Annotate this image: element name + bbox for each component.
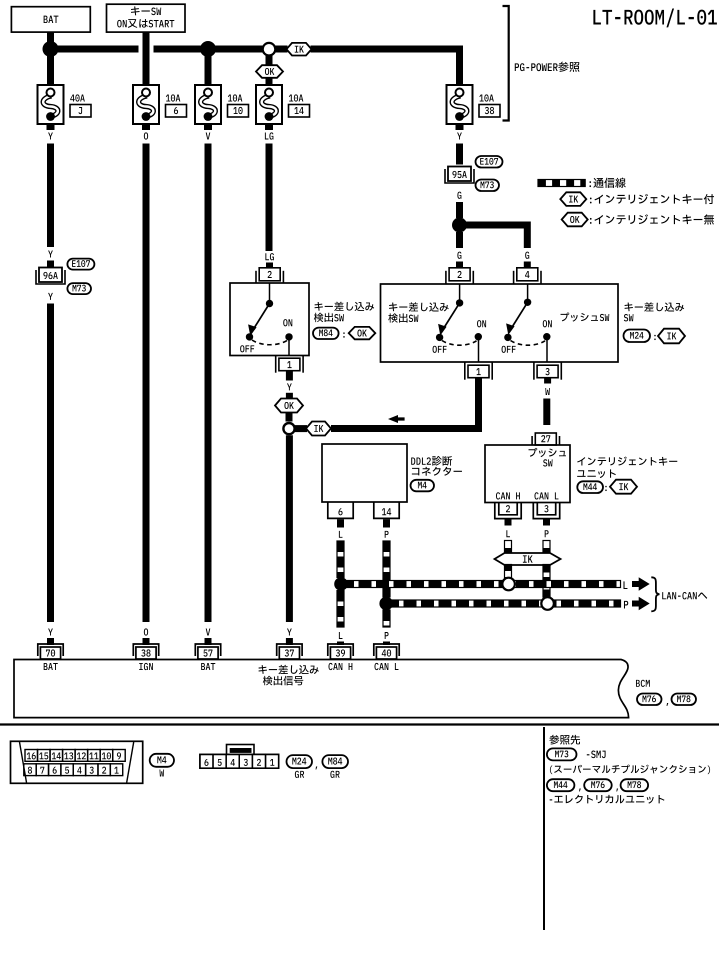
fuse 10A 38 <box>447 85 473 124</box>
wire stub G pin4 <box>524 262 531 269</box>
arrow L bus <box>632 577 650 591</box>
comma separator 3 <box>579 788 581 791</box>
wire W down to pin27 <box>543 399 550 426</box>
label GR M24 <box>295 771 299 778</box>
wire stub below pin x=508 <box>505 519 512 525</box>
wire label L above BCM pin 39 <box>339 632 343 639</box>
BCM pin label BAT <box>44 663 48 670</box>
switchA dashed arc <box>442 341 477 346</box>
label W footer <box>160 770 165 777</box>
wire Y 96A to BCM <box>47 304 54 623</box>
switch OFF contact dot <box>246 333 253 340</box>
colon separator 2 <box>654 335 655 340</box>
fuse 40A J <box>38 85 64 124</box>
switchA OFF dot <box>436 334 443 341</box>
wire Y below fuse J <box>47 144 54 248</box>
label GR M84 <box>330 771 334 778</box>
IK unit label CAN H <box>496 492 500 499</box>
switchA line from pin2 <box>459 284 461 303</box>
switchA label ON <box>477 320 481 327</box>
connector pinout M4 <box>11 741 143 783</box>
wire label G pin4 <box>525 252 529 259</box>
junction dot at fuse 10 <box>200 41 216 57</box>
wire circle to OK flag <box>266 56 273 66</box>
brace LAN-CAN <box>651 577 659 611</box>
wire color label O <box>144 132 148 139</box>
pin 6 DDL2 <box>328 502 353 518</box>
connector 95A <box>448 167 471 182</box>
pin 3 big switch <box>537 365 558 378</box>
pin 4 big switch <box>517 268 538 281</box>
BCM box <box>14 660 629 718</box>
label L bus end <box>623 581 627 589</box>
wire Y branch horizontal <box>331 425 482 432</box>
wire G below dot <box>456 232 463 248</box>
comm wire L DDL2 down <box>337 541 344 578</box>
separator line <box>0 723 719 725</box>
switch output line <box>288 340 290 356</box>
flag OK on Y wire <box>275 399 303 413</box>
key switch box M24 <box>381 284 619 362</box>
colon separator 3 <box>605 486 606 491</box>
switch ON contact dot <box>285 333 292 340</box>
connector ref M24 <box>624 330 651 343</box>
IK unit label pushSW line1 <box>529 448 538 457</box>
BCM pin 57 <box>198 647 218 659</box>
connector ref M84 footer <box>322 755 348 768</box>
connector ref M73 footer <box>547 748 577 760</box>
connector ref M24 footer <box>287 755 313 768</box>
junction dot P bus <box>379 597 393 611</box>
wire label W big box <box>545 388 550 395</box>
wire stub below fuse at x=208 <box>204 124 212 130</box>
small switch label line1 <box>315 302 323 311</box>
wire stub below fuse at x=50.5 <box>47 124 55 130</box>
connector ref M4 footer <box>150 754 174 767</box>
wire stub BCM pin 39 <box>337 642 344 646</box>
flag OK small switch <box>349 327 376 339</box>
wire stub below pin1 <box>286 372 293 381</box>
connector pinout M24/M84 <box>227 745 255 757</box>
open circle CANL on P bus <box>541 597 554 610</box>
comm wire L to pin39 <box>337 591 344 628</box>
flag OK above fuse 14 <box>256 65 283 78</box>
wire label Y above 96A <box>48 251 53 258</box>
wire G stub to junction <box>456 202 463 218</box>
switchA arm with arrow <box>444 303 460 329</box>
pin 27 IK unit <box>535 433 556 445</box>
wire label Y small switch <box>287 383 292 390</box>
switchB OFF dot <box>504 334 511 341</box>
connector ref M73 left <box>67 283 91 294</box>
wire stub below pin x=546.5 <box>543 519 550 525</box>
wire stub BCM pin 57 <box>205 638 212 645</box>
comm wire P DDL2 down <box>383 541 390 597</box>
flag IK wide CAN <box>495 553 561 565</box>
wire label Y below 96A <box>48 293 53 300</box>
wire stub BCM pin 40 <box>383 642 390 646</box>
big box label line2 <box>388 313 398 322</box>
fuse 10A 14 <box>256 85 282 124</box>
BCM pin 70 <box>40 647 60 659</box>
BCM pin 37 label line2 <box>263 676 273 685</box>
wire stub G pin2 <box>456 262 463 269</box>
pin 2 small switch <box>259 268 280 281</box>
wire stub below pin3 big <box>544 378 551 383</box>
wire label Y above BCM pin 70 <box>48 629 53 636</box>
comma separator 4 <box>616 788 618 791</box>
wire stub BCM pin 37 <box>286 638 293 645</box>
small switch label line2 <box>314 313 324 322</box>
open circle junction Y <box>283 423 294 434</box>
wire color label Y <box>48 133 53 140</box>
wire OK flag to fuse 14 <box>266 78 273 85</box>
switchB dashed arc <box>511 341 546 346</box>
legend comm line text <box>589 181 591 187</box>
label OFF <box>240 345 244 352</box>
wire Y circle down to BCM <box>286 435 293 622</box>
BCM pin 40 <box>376 647 396 659</box>
wire color label Y <box>457 133 462 140</box>
switchB label OFF <box>502 346 506 353</box>
switchB output line <box>546 340 548 362</box>
label electrical unit <box>550 799 553 800</box>
wire label L DDL2 <box>339 531 343 538</box>
wire BAT box to bus and fuse J <box>47 32 54 85</box>
big box right label line2 <box>624 314 628 321</box>
wire label G pin2 <box>457 252 461 259</box>
BCM pin 39 <box>330 647 350 659</box>
label SMJ <box>587 754 590 755</box>
label P bus end <box>624 601 628 609</box>
connector ref M44 footer <box>547 779 575 791</box>
wire label Y above BCM pin 37 <box>287 629 292 636</box>
comma separator 2 <box>316 766 318 769</box>
label reference header <box>549 735 559 745</box>
switchA label OFF <box>433 346 437 353</box>
connector ref M78 footer <box>621 779 649 791</box>
wire label L IK unit <box>506 530 510 537</box>
wire circle to IK flag <box>294 425 307 432</box>
legend OK flag <box>562 213 588 227</box>
title LT-ROOM/L-01 <box>593 10 601 25</box>
wire color label V <box>206 133 211 140</box>
wire label P IK unit <box>545 530 549 537</box>
connector ref M76 BCM <box>637 694 662 706</box>
connector ref E107 right <box>476 156 503 168</box>
label LAN-CAN <box>662 592 666 599</box>
flag IK on bus <box>287 43 312 56</box>
IK unit box <box>485 445 570 503</box>
wire LG fuse14 down <box>266 144 273 252</box>
wire stub BCM pin 70 <box>47 638 54 645</box>
switchB label pushSW <box>561 312 570 321</box>
BCM pin 38 <box>136 647 156 659</box>
DDL2 label line1 <box>411 457 415 464</box>
switchB pivot dot <box>524 299 531 306</box>
wire stub below pin1 big <box>475 378 482 383</box>
wire color label LG <box>265 133 269 140</box>
switchA output line <box>478 340 480 362</box>
BCM pin 37 label line1 <box>259 665 267 674</box>
direction arrow left <box>388 415 405 423</box>
switchA pivot dot <box>456 299 463 306</box>
bracket PG-POWER <box>503 6 509 121</box>
wire stub below fuse at x=459.5 <box>456 124 464 130</box>
comm bus P horizontal <box>386 600 621 607</box>
switch arm with arrow <box>254 304 270 330</box>
flag IK big switch <box>658 329 685 344</box>
pin 14 DDL2 <box>374 502 399 518</box>
IK unit right label line1 <box>577 457 585 465</box>
colon separator <box>343 332 344 337</box>
flag IK unit <box>610 480 637 494</box>
switch dashed arc <box>252 340 287 345</box>
wire OK flag to circle <box>286 413 293 422</box>
fuse 10A 6 <box>133 85 159 124</box>
wire stub below fuse at x=146 <box>142 124 150 130</box>
label super multiple junction <box>550 766 553 775</box>
connector ref M4 <box>411 480 435 492</box>
big box label line1 <box>389 303 397 312</box>
open circle CANH on L bus <box>502 578 515 591</box>
switchA ON dot <box>475 333 482 340</box>
IK unit label CAN L <box>534 492 538 499</box>
connector ref M76 footer <box>584 779 612 791</box>
comm wire CANH below IK flag <box>505 565 512 578</box>
wire stub below fuse at x=269 <box>265 124 273 130</box>
legend OK text <box>590 218 592 224</box>
label ON <box>283 319 287 326</box>
wire label Y big box <box>476 388 481 395</box>
arrow P bus <box>632 597 650 611</box>
connector ref M44 <box>577 481 603 493</box>
legend IK text <box>590 198 592 204</box>
pin 2 IK unit <box>499 503 517 515</box>
divider line <box>543 727 545 930</box>
wire label O above BCM pin 38 <box>144 628 148 635</box>
wire stub BCM pin 38 <box>143 638 150 645</box>
wire stub above 96A <box>47 261 54 269</box>
junction dot L bus <box>334 577 348 591</box>
pin 1 small switch <box>279 358 300 371</box>
connector ref M78 BCM <box>672 694 697 706</box>
DDL2 connector box <box>322 444 407 502</box>
wire stub LG pin2 <box>266 263 273 269</box>
IK unit right label line2 <box>577 470 585 477</box>
comm wire P to pin40 <box>383 610 390 627</box>
junction dot at BAT <box>43 41 59 57</box>
wire Y below fuse 38 <box>456 144 463 165</box>
comm bus L horizontal <box>341 581 621 588</box>
flag IK on Y branch <box>306 422 331 436</box>
connector 96A <box>39 268 62 283</box>
label BCM <box>636 680 640 687</box>
wire stub pin1 to OK flag <box>286 393 293 399</box>
IK unit label pushSW line2 <box>543 459 547 466</box>
connector ref M84 <box>313 328 339 339</box>
switchB line from pin4 <box>527 284 529 302</box>
bus wire BAT horizontal <box>51 46 139 53</box>
legend comm line sample <box>538 180 585 187</box>
comma separator <box>667 703 669 706</box>
fuse 10A 10 <box>195 85 221 124</box>
wire label V above BCM pin 57 <box>206 629 211 636</box>
connector ref E107 left <box>67 259 94 270</box>
BCM pin label CAN L <box>374 663 378 670</box>
wire label P DDL2 <box>385 531 389 538</box>
power source box key SW ON/START <box>107 4 186 32</box>
wire label G below 95A <box>457 192 461 199</box>
switchB ON dot <box>543 333 550 340</box>
comm wire CANL above IK flag <box>543 541 550 554</box>
wire dot to fuse 10 <box>205 49 212 85</box>
BCM pin label BAT <box>201 663 205 670</box>
BCM pin 37 <box>279 647 299 659</box>
connector ref M73 right <box>476 180 500 192</box>
switchB label ON <box>543 320 547 327</box>
wire O fuse6 to BCM <box>143 144 150 623</box>
wire label LG pin2 <box>265 253 269 260</box>
DDL2 label line2 <box>412 468 419 475</box>
open circle junction on bus <box>263 43 276 56</box>
wire keySW box to fuse 6 <box>143 32 150 85</box>
junction dot G <box>452 218 467 233</box>
switch pivot dot <box>266 300 273 307</box>
comm wire CANL below IK flag <box>543 565 550 598</box>
wire Y branch vertical to pin1 big box <box>475 383 482 432</box>
switchB arm with arrow <box>512 302 528 328</box>
comm wire CANH above IK flag <box>505 541 512 554</box>
wire label P above BCM pin 40 <box>385 632 389 639</box>
wire stub below pin x=340.5 <box>337 519 344 527</box>
wire V fuse10 to BCM <box>205 144 212 623</box>
power source box BAT <box>11 7 90 32</box>
switch line from pin2 <box>269 283 271 304</box>
pin 1 big switch <box>468 365 489 378</box>
wire G branch right and down <box>460 225 528 248</box>
key detect switch box OK variant <box>230 283 309 356</box>
big box right label line1 <box>625 303 633 312</box>
pin 2 big switch <box>449 268 470 281</box>
legend IK flag <box>560 192 586 206</box>
wire stub below pin x=386.5 <box>383 519 390 527</box>
pin 3 IK unit <box>537 503 555 515</box>
BCM pin label IGN <box>139 663 143 670</box>
BCM pin label CAN H <box>328 663 332 670</box>
